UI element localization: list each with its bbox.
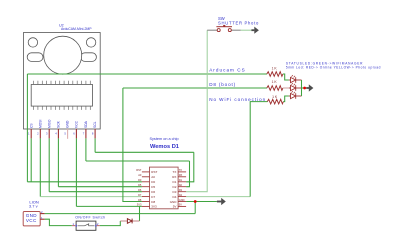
svg-text:D8: D8 (138, 198, 142, 202)
wire camera VCC down (75, 138, 77, 206)
net arrow LED (306, 84, 313, 91)
camera lens circle (44, 36, 82, 74)
wire R1 to LED1 (283, 74, 289, 80)
svg-text:RX: RX (172, 175, 176, 179)
svg-text:RX: RX (179, 173, 183, 177)
switch contacts (217, 29, 220, 32)
svg-text:D4: D4 (179, 193, 183, 197)
wire net ARDUCAM-CS horizontal (crosses camera graphic) (27, 73, 267, 75)
switch leads (207, 29, 217, 31)
wire SCL down to chip D1 (186, 152, 194, 182)
switch actuator bar (216, 26, 232, 28)
svg-text:D3: D3 (179, 188, 183, 192)
wire chip D4 to no-wifi resistor (light) (186, 196, 250, 198)
wire switch to diode (100, 221, 121, 226)
svg-text:SDA: SDA (84, 120, 88, 128)
svg-text:MOSI: MOSI (38, 119, 42, 128)
svg-text:3V3: 3V3 (137, 203, 142, 207)
svg-text:3.7 v: 3.7 v (29, 204, 38, 209)
svg-text:D3: D3 (173, 190, 177, 194)
svg-text:ON/OFF Switch: ON/OFF Switch (75, 215, 105, 219)
svg-text:D7: D7 (138, 193, 142, 197)
svg-text:5mm Led: RED-> Online YELLOW->: 5mm Led: RED-> Online YELLOW-> Photo upl… (286, 65, 381, 69)
svg-text:Wemos D1: Wemos D1 (150, 144, 179, 150)
battery body (23, 212, 40, 226)
camera pin labels (rotated) (29, 119, 97, 128)
wire camera SCK down (57, 138, 59, 186)
chip U1 Wemos D1 body (150, 167, 179, 209)
svg-text:D2: D2 (173, 185, 177, 189)
wire camera SCL down (94, 138, 96, 152)
wire camera SDA down (85, 138, 87, 161)
svg-text:D8: D8 (151, 200, 155, 204)
wire R2 to LED2 (pale lead) (283, 87, 289, 89)
svg-text:RST: RST (136, 168, 142, 172)
LED D3 yellow status (289, 91, 302, 99)
svg-text:D0: D0 (151, 180, 155, 184)
svg-text:TX: TX (173, 170, 177, 174)
svg-text:5V: 5V (173, 205, 177, 209)
lens flange left (27, 53, 43, 62)
svg-text:D4: D4 (173, 195, 177, 199)
wire VCC to chip 3V3 row (76, 205, 141, 207)
svg-text:1 K: 1 K (272, 80, 278, 84)
diode D4 symbol (127, 219, 132, 224)
svg-text:RST: RST (151, 170, 157, 174)
svg-text:D7: D7 (151, 195, 155, 199)
LED D2 red status (289, 83, 302, 91)
camera body (24, 33, 101, 130)
svg-text:3V3: 3V3 (151, 205, 157, 209)
wire camera MISO down (48, 138, 50, 191)
svg-text:GND: GND (170, 200, 178, 204)
wire camera CS pin down to D0 row (30, 138, 32, 181)
svg-text:D6: D6 (151, 190, 155, 194)
camera pin 5 GND unconnected pale stub (67, 129, 69, 139)
svg-text:System on a chip: System on a chip (150, 137, 179, 141)
svg-text:D0: D0 (138, 178, 142, 182)
wire shutter net vertical down to chip D3 (186, 30, 207, 192)
switch pads (76, 225, 77, 227)
wire LED common cathode (301, 80, 303, 96)
svg-text:ArduCAM-Mini-2MP: ArduCAM-Mini-2MP (61, 27, 92, 31)
svg-text:SCL: SCL (93, 121, 97, 128)
wire GND junction down (194, 202, 196, 214)
wire D0 row to chip (27, 181, 141, 183)
wire SCL horizontal over chip (95, 151, 194, 153)
chip inside pin labels right (170, 170, 178, 209)
net arrow GND (217, 198, 226, 205)
camera internal IC (31, 81, 92, 110)
svg-text:CS: CS (29, 123, 33, 128)
svg-text:A0: A0 (151, 175, 155, 179)
resistor R1 1K (Arducam CS) (267, 72, 283, 77)
wire MOSI to chip D7 row (light) (40, 196, 142, 198)
junction dot LED (303, 87, 306, 90)
wire MISO to chip D6 row (49, 191, 142, 193)
svg-text:SHUTTER Photo: SHUTTER Photo (218, 21, 259, 26)
diode D4 leads (120, 220, 127, 222)
chip outside net labels right (179, 168, 185, 207)
svg-text:VCC: VCC (26, 218, 37, 223)
svg-text:GND: GND (179, 198, 185, 202)
wire chip GND to junction and arrow (186, 201, 217, 203)
wire net ARDUCAM-CS vertical from row to chip D0 (26, 74, 28, 182)
svg-text:GND: GND (66, 120, 70, 128)
svg-text:D5: D5 (138, 183, 142, 187)
mounting hole right (86, 38, 95, 47)
battery pin stubs (40, 213, 44, 215)
wire SDA down to chip D2 (186, 161, 189, 187)
svg-text:1 K: 1 K (272, 67, 278, 71)
chip outside net labels left (136, 168, 142, 207)
ON/OFF switch body (76, 221, 96, 230)
svg-text:D8 (boot): D8 (boot) (209, 82, 236, 87)
svg-text:1 K: 1 K (272, 95, 278, 99)
wire battery GND row (45, 213, 196, 215)
resistor R3 1K (No WiFi) (267, 99, 283, 104)
wire net D8-boot vertical (123, 88, 142, 202)
switch pin stubs (72, 225, 75, 227)
wire SCK to chip D5 row (58, 186, 141, 188)
resistor R2 1K (D8 boot) (267, 86, 283, 91)
wire R3 to LED3 (283, 96, 289, 102)
svg-text:SCK: SCK (57, 120, 61, 128)
mounting hole left (28, 38, 37, 47)
svg-text:D2: D2 (179, 183, 183, 187)
chip inside pin labels left (151, 170, 157, 209)
svg-text:D1: D1 (173, 180, 177, 184)
wire diode out up to 3V3 row (139, 206, 141, 221)
camera pin stubs (31, 129, 95, 138)
svg-text:A0: A0 (138, 173, 142, 177)
pushbutton SW shutter (207, 25, 259, 34)
chip left pin stubs (142, 172, 150, 207)
wire SDA horizontal over chip (86, 160, 190, 162)
svg-text:TX: TX (179, 168, 183, 172)
wire camera MOSI down (39, 138, 41, 196)
svg-text:5V: 5V (179, 203, 182, 207)
camera pin numbers (28, 132, 94, 136)
wire battery VCC to switch (45, 219, 72, 225)
net arrow shutter (251, 27, 259, 34)
wire no-wifi vertical (250, 102, 267, 197)
LED D1 green status (289, 75, 302, 83)
camera module U2 ArduCAM-Mini-2MP (24, 33, 101, 130)
wire D8 row to resistor R2 (123, 87, 267, 89)
svg-text:D1: D1 (179, 178, 183, 182)
junction dot GND (194, 200, 197, 203)
lens flange right (81, 53, 97, 62)
wire switch to arrow (241, 29, 252, 31)
svg-text:D5: D5 (151, 185, 155, 189)
svg-text:D6: D6 (138, 188, 142, 192)
svg-text:Arducam CS: Arducam CS (209, 68, 246, 73)
chip right pin stubs (178, 172, 186, 207)
wire cathode to junction (302, 87, 307, 89)
svg-text:MISO: MISO (47, 119, 51, 128)
svg-text:No WiFi connection: No WiFi connection (209, 97, 266, 102)
svg-text:VCC: VCC (75, 120, 79, 128)
switch internal lever (78, 224, 95, 226)
